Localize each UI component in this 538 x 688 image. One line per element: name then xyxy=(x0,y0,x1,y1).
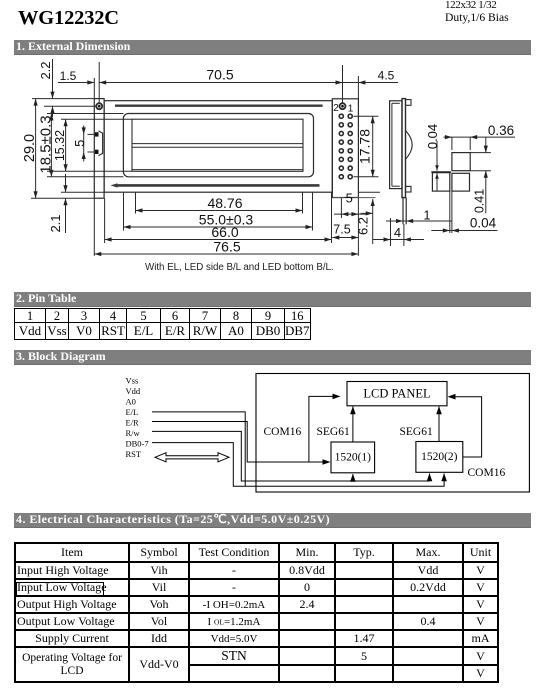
svg-text:E/L: E/L xyxy=(126,407,139,417)
svg-text:E/R: E/R xyxy=(126,418,140,428)
svg-text:0.41: 0.41 xyxy=(473,189,487,213)
svg-text:A0: A0 xyxy=(126,397,136,407)
svg-text:SEG61: SEG61 xyxy=(400,426,433,438)
svg-text:15.32: 15.32 xyxy=(53,130,67,161)
svg-text:17.78: 17.78 xyxy=(357,129,373,164)
wire E/L xyxy=(152,412,245,486)
mounting hole left xyxy=(96,103,102,109)
module body outline xyxy=(104,101,332,193)
svg-text:LCD PANEL: LCD PANEL xyxy=(363,387,430,401)
display window xyxy=(132,119,303,171)
dim 17.78 xyxy=(372,116,374,177)
dimension drawing xyxy=(0,0,538,262)
side view bezel profile xyxy=(390,101,402,189)
detail bottom right square xyxy=(452,173,470,191)
svg-text:1: 1 xyxy=(348,104,354,115)
dim 48.76 xyxy=(136,210,303,212)
ext lines bottom xyxy=(93,198,95,256)
electrical table xyxy=(14,542,499,683)
wire R/w bottom bus xyxy=(152,431,430,481)
dim 66.0 xyxy=(105,239,332,241)
SEG61 arrow 1 xyxy=(352,407,354,443)
ext 29.0 bottom xyxy=(31,197,94,199)
COM16 wire right xyxy=(455,397,482,457)
dim 4 xyxy=(390,218,392,246)
EL pad lower xyxy=(95,150,99,154)
block diagram xyxy=(0,365,538,500)
svg-text:2.2: 2.2 xyxy=(38,61,53,79)
dim 29.0 xyxy=(35,99,37,199)
svg-text:48.76: 48.76 xyxy=(207,195,242,211)
svg-text:RST: RST xyxy=(126,449,142,459)
dim 1.5 xyxy=(58,82,94,84)
EL connector bracket xyxy=(99,131,103,156)
ext lines top xyxy=(93,78,95,99)
side lamp bump xyxy=(406,131,413,160)
dim 4.5 xyxy=(343,82,399,84)
svg-text:DB0-7: DB0-7 xyxy=(126,439,149,449)
side view pcb strip xyxy=(402,99,406,198)
svg-text:70.5: 70.5 xyxy=(206,67,233,83)
svg-text:6.2: 6.2 xyxy=(356,217,371,235)
ext 6.2 xyxy=(332,197,344,199)
bottom contact bar xyxy=(116,184,320,187)
dim 5 pads xyxy=(83,126,85,162)
dim 6.2 xyxy=(372,199,374,244)
EL pad upper xyxy=(95,132,99,136)
side pin below xyxy=(402,198,404,225)
ext 29.0 top xyxy=(32,98,94,100)
svg-text:4: 4 xyxy=(394,225,401,240)
dim 0.36 xyxy=(451,137,453,150)
svg-text:18.5±0.3: 18.5±0.3 xyxy=(37,115,54,173)
ext 17.78 xyxy=(354,115,379,117)
ext 18.5 top xyxy=(47,113,123,115)
svg-text:SEG61: SEG61 xyxy=(317,426,350,438)
ext bottom 15.32 xyxy=(47,170,132,172)
svg-text:Vdd: Vdd xyxy=(126,386,141,396)
driver 1520(2) xyxy=(416,442,463,473)
dim 2.2 xyxy=(52,59,54,99)
svg-text:1.5: 1.5 xyxy=(60,69,77,83)
ext 15.32 top xyxy=(61,118,132,120)
ext 2.1 upper xyxy=(61,191,104,193)
svg-text:COM16: COM16 xyxy=(264,426,302,438)
dim 2.1 xyxy=(65,174,67,192)
mounting hole right xyxy=(340,103,346,109)
dim 0.04 bottom xyxy=(449,191,451,233)
svg-text:5: 5 xyxy=(346,191,353,206)
outer block boundary xyxy=(256,374,529,493)
DB0-7 bus double arrow xyxy=(155,453,229,462)
title WG12232C xyxy=(18,7,119,30)
svg-text:0.36: 0.36 xyxy=(488,123,514,138)
detail bottom left square xyxy=(432,172,449,191)
note EL backlight xyxy=(145,262,334,273)
svg-text:7.5: 7.5 xyxy=(333,223,350,237)
side view glass inner line xyxy=(391,103,393,186)
section bar 4 xyxy=(14,513,531,528)
branch into 1520(1) xyxy=(352,474,354,481)
top contact bar xyxy=(115,104,323,106)
module left EL column xyxy=(94,99,104,199)
SEG61 arrow 2 xyxy=(438,407,440,442)
svg-text:4.5: 4.5 xyxy=(378,69,395,83)
dim 55.0±0.3 xyxy=(124,226,313,228)
section bar 1 xyxy=(14,40,531,55)
dim 7.5 xyxy=(332,237,358,239)
ext pin col2 xyxy=(340,198,342,219)
bezel xyxy=(123,114,313,177)
LCD PANEL box xyxy=(347,382,447,406)
svg-text:COM16: COM16 xyxy=(468,467,506,479)
COM16 wire to LCD panel xyxy=(309,396,334,462)
dim 1 xyxy=(386,220,452,222)
section bar 3 xyxy=(14,350,531,365)
dim 70.5 xyxy=(99,82,342,84)
ext pads xyxy=(88,133,95,135)
svg-text:76.5: 76.5 xyxy=(213,239,240,255)
svg-text:1: 1 xyxy=(424,209,431,223)
ext module bottom right xyxy=(358,191,380,193)
pin holes xyxy=(339,114,352,179)
module pin column xyxy=(332,99,358,198)
wire DB0-7 bottom bus xyxy=(152,443,444,487)
pin table xyxy=(14,308,311,340)
detail top square xyxy=(452,153,470,171)
dim 0.04 left xyxy=(436,141,438,171)
dim 18.5±0.3 xyxy=(50,114,52,177)
driver 1520(1) xyxy=(331,442,375,473)
ext bottom 18.5 xyxy=(47,176,123,178)
svg-text:1520(2): 1520(2) xyxy=(421,451,458,463)
section bar 2 xyxy=(14,292,531,307)
dim 76.5 xyxy=(94,253,358,255)
svg-text:Vss: Vss xyxy=(126,376,139,386)
svg-text:0.04: 0.04 xyxy=(470,216,497,231)
svg-text:2.1: 2.1 xyxy=(48,214,63,232)
svg-text:29.0: 29.0 xyxy=(22,134,38,162)
dim 0.41 xyxy=(470,152,491,154)
svg-text:2: 2 xyxy=(333,103,339,114)
signal labels xyxy=(126,376,149,460)
spec top right xyxy=(445,0,509,24)
display row divider xyxy=(132,143,303,145)
dim 5 right xyxy=(334,213,366,215)
svg-text:5: 5 xyxy=(72,140,87,147)
svg-text:0.04: 0.04 xyxy=(425,124,440,149)
svg-text:R/w: R/w xyxy=(126,428,141,438)
side tab top xyxy=(406,100,412,106)
hole centerline ext xyxy=(44,105,96,107)
svg-text:1520(1): 1520(1) xyxy=(335,452,372,464)
side tab bottom xyxy=(406,186,412,192)
dim 15.32 xyxy=(65,119,67,171)
wire E/R to 1520(1) xyxy=(152,422,324,463)
